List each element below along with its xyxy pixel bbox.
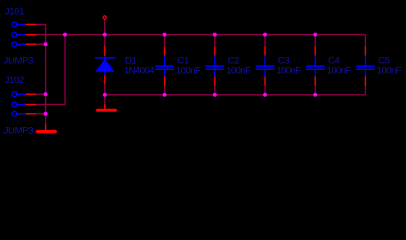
diode D1 bottom stem [104,72,106,76]
connector J101 pin 3 [12,42,26,47]
diode D1 bottom pin [104,76,106,85]
junction top bus / J102 pin2 riser [63,33,67,37]
svg-text:JUMP3: JUMP3 [4,55,34,66]
diode D1 triangle [95,59,115,72]
wire diode top [104,35,106,46]
connector J101 pin 2 [12,32,26,37]
connector J102 pin 3 [12,111,26,116]
connector J102 pin 1 [12,92,26,97]
wire C5 bottom drop [364,86,366,95]
junction bottom bus / C4 [313,93,317,97]
connector J102 pin 2 [12,102,26,107]
wire J101 pin3 [36,43,46,45]
svg-text:100nF: 100nF [226,66,251,77]
junction bottom bus / C2 [213,93,217,97]
svg-text:J102: J102 [5,75,24,86]
capacitor C2 [205,46,224,85]
wire J102 pin1 [36,93,46,95]
diode D1 top pin [104,46,106,57]
svg-text:100nF: 100nF [276,66,301,77]
wire C3 top lead [264,35,266,47]
wire C1 top lead [164,35,166,47]
wire C1 bottom lead [164,86,166,95]
junction gnd column / J102 pin1 [44,92,48,96]
diode D1 cathode bar [95,57,116,59]
capacitor C1 [155,46,174,85]
wire C3 bottom lead [264,86,266,95]
junction top bus / diode [103,33,107,37]
power port circle [103,16,106,19]
ground left lead [45,124,47,130]
capacitor C5 [356,46,375,86]
ground left bar [35,130,57,133]
junction bottom bus / C1 [163,93,167,97]
wire J102 pin2 to top bus [36,35,65,105]
svg-text:100nF: 100nF [377,66,402,77]
svg-text:100nF: 100nF [176,66,201,77]
capacitor C3 [256,46,275,85]
wire top bus [36,34,365,36]
junction bottom bus / C3 [263,93,267,97]
junction top bus / C1 [163,33,167,37]
wire J102 pin3 [36,113,46,115]
wire C2 top lead [214,35,216,47]
wire diode bottom [104,84,106,103]
junction gnd column / J101 pin3 [44,42,48,46]
diode D1 top stem [104,56,106,60]
junction gnd column / J102 pin3 [44,112,48,116]
connector J101 pin 1 [12,22,26,27]
wire C4 top lead [314,35,316,47]
wire J101 pin1 to gnd column [36,24,46,44]
capacitor C4 [306,46,325,85]
wire C2 bottom lead [214,86,216,95]
svg-text:1N4004: 1N4004 [124,66,154,77]
svg-text:JUMP3: JUMP3 [4,125,34,136]
wire power stub [104,20,106,35]
wire C4 bottom lead [314,86,316,95]
junction top bus / C2 [213,33,217,37]
junction top bus / C4 [313,33,317,37]
ground right bar [96,109,118,112]
wire gnd vertical column [45,44,47,124]
svg-text:J101: J101 [5,6,24,17]
wire C5 top drop [364,35,366,47]
wire bottom bus [105,94,366,96]
ground right lead [104,104,106,109]
junction top bus / C3 [263,33,267,37]
svg-text:100nF: 100nF [327,66,352,77]
junction bottom bus / diode gnd [103,93,107,97]
